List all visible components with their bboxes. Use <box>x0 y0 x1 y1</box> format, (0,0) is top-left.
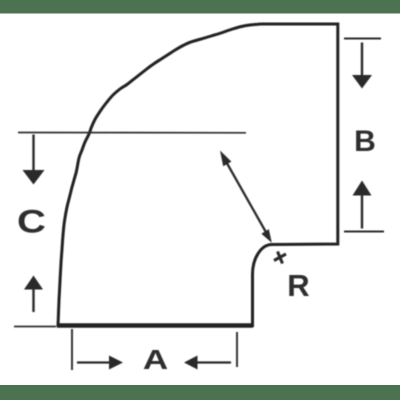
R leader double arrow <box>224 158 267 234</box>
svg-text:A: A <box>143 343 168 375</box>
svg-text:C: C <box>17 203 46 239</box>
B top tick <box>344 38 381 40</box>
svg-text:R: R <box>287 268 309 303</box>
C down arrow <box>32 135 34 172</box>
C up arrow <box>32 289 34 312</box>
B up arrow <box>353 181 372 196</box>
bottom face (thicker) <box>57 323 253 328</box>
bottom green bar <box>0 385 400 400</box>
B down arrow <box>361 43 363 77</box>
centerline <box>18 132 246 134</box>
svg-text:B: B <box>354 125 376 158</box>
B bottom tick <box>344 231 384 233</box>
R center mark + <box>274 254 286 261</box>
A right-pointing arrow <box>77 361 110 363</box>
A right tick <box>236 332 238 367</box>
C baseline extension <box>14 326 56 328</box>
A left-pointing arrow <box>184 356 198 370</box>
elbow body outline <box>58 24 338 326</box>
A left tick <box>71 329 73 370</box>
top green bar <box>0 0 400 14</box>
